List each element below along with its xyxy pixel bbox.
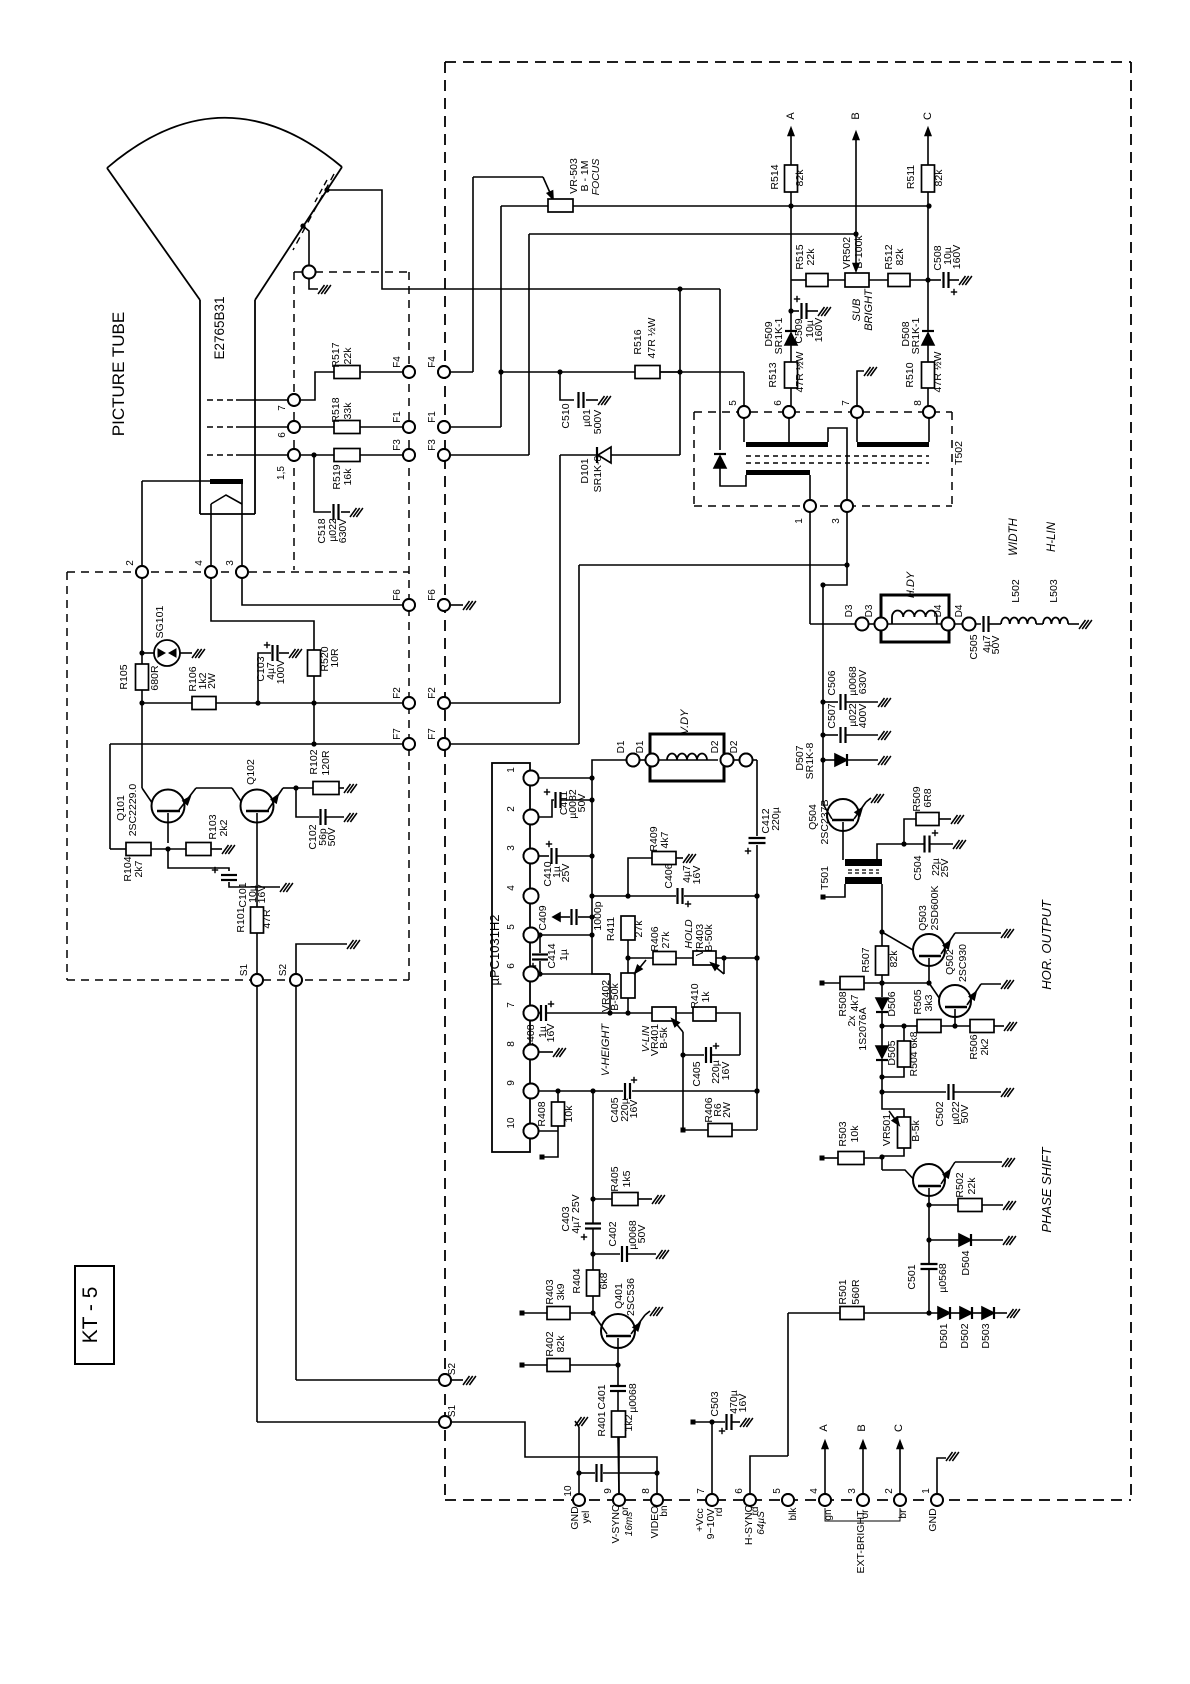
svg-text:22k: 22k <box>805 248 817 266</box>
svg-text:R513: R513 <box>767 362 779 387</box>
svg-text:1µ: 1µ <box>558 949 570 961</box>
svg-text:V.DY: V.DY <box>679 709 691 735</box>
svg-text:1: 1 <box>794 518 805 524</box>
svg-text:1: 1 <box>921 1488 932 1494</box>
svg-text:D4: D4 <box>954 604 965 617</box>
svg-text:H-LIN: H-LIN <box>1046 521 1058 552</box>
svg-text:C502: C502 <box>934 1101 946 1126</box>
svg-text:SG101: SG101 <box>154 606 166 639</box>
svg-text:16V: 16V <box>545 1024 557 1043</box>
svg-text:5: 5 <box>728 400 739 406</box>
svg-text:C: C <box>893 1424 905 1432</box>
svg-text:L502: L502 <box>1010 579 1022 603</box>
svg-text:1k: 1k <box>700 991 712 1003</box>
svg-text:16V: 16V <box>720 1062 732 1081</box>
svg-text:R405: R405 <box>609 1166 621 1191</box>
svg-text:B-5k: B-5k <box>658 1026 670 1048</box>
svg-text:C414: C414 <box>546 943 558 968</box>
svg-text:16V: 16V <box>256 885 268 904</box>
svg-text:F2: F2 <box>427 687 438 699</box>
svg-text:R518: R518 <box>330 397 342 422</box>
svg-text:S1: S1 <box>447 1404 458 1417</box>
svg-text:630V: 630V <box>337 519 349 544</box>
svg-text:2k2: 2k2 <box>979 1038 991 1055</box>
svg-text:rd: rd <box>714 1508 725 1517</box>
svg-text:1,5: 1,5 <box>276 466 287 480</box>
svg-text:500V: 500V <box>592 410 604 435</box>
svg-text:R502: R502 <box>954 1172 966 1197</box>
svg-text:2: 2 <box>506 806 517 812</box>
svg-text:C510: C510 <box>560 403 572 428</box>
svg-text:F3: F3 <box>392 439 403 451</box>
svg-text:2k2: 2k2 <box>218 819 230 836</box>
svg-text:5: 5 <box>506 924 517 930</box>
svg-text:47R ½W: 47R ½W <box>932 351 944 392</box>
svg-text:R501: R501 <box>837 1279 849 1304</box>
svg-text:R408: R408 <box>536 1101 548 1126</box>
svg-text:PICTURE TUBE: PICTURE TUBE <box>109 312 128 436</box>
svg-text:16k: 16k <box>342 468 354 486</box>
svg-text:D3: D3 <box>844 604 855 617</box>
svg-text:F7: F7 <box>392 728 403 740</box>
svg-text:E2765B31: E2765B31 <box>212 296 227 359</box>
svg-text:560R: 560R <box>850 1279 862 1305</box>
svg-text:4k7: 4k7 <box>849 994 861 1011</box>
svg-text:B-100k: B-100k <box>853 235 865 269</box>
svg-text:2SC2229.0: 2SC2229.0 <box>127 784 139 837</box>
svg-text:µ0568: µ0568 <box>937 1263 949 1293</box>
svg-text:400V: 400V <box>857 704 869 729</box>
svg-text:D2: D2 <box>729 740 740 753</box>
svg-text:F6: F6 <box>392 589 403 601</box>
svg-text:10: 10 <box>563 1485 574 1497</box>
svg-text:SR1K-8: SR1K-8 <box>592 455 604 492</box>
svg-text:2SC930: 2SC930 <box>957 944 969 982</box>
svg-text:or: or <box>860 1509 871 1519</box>
svg-text:blk: blk <box>788 1507 799 1521</box>
svg-text:27k: 27k <box>660 931 672 949</box>
svg-text:5: 5 <box>772 1488 783 1494</box>
svg-text:PHASE SHIFT: PHASE SHIFT <box>1039 1146 1054 1232</box>
svg-text:SR1K-1: SR1K-1 <box>910 317 922 354</box>
svg-text:EXT-BRIGHT: EXT-BRIGHT <box>855 1510 867 1574</box>
svg-text:R404: R404 <box>571 1268 583 1293</box>
svg-text:10k: 10k <box>563 1105 575 1123</box>
svg-text:V-HEIGHT: V-HEIGHT <box>600 1023 612 1076</box>
svg-text:D1: D1 <box>635 740 646 753</box>
svg-text:R511: R511 <box>905 165 917 189</box>
svg-text:3: 3 <box>847 1488 858 1494</box>
svg-text:R517: R517 <box>330 342 342 367</box>
svg-text:Q504: Q504 <box>807 804 819 830</box>
svg-text:F1: F1 <box>392 411 403 423</box>
svg-text:F2: F2 <box>392 687 403 699</box>
svg-text:160V: 160V <box>813 318 825 343</box>
svg-text:B-5k: B-5k <box>910 1119 922 1141</box>
svg-text:7: 7 <box>277 405 288 411</box>
svg-text:SR1K-1: SR1K-1 <box>773 317 785 354</box>
svg-text:BRIGHT: BRIGHT <box>863 288 875 331</box>
svg-text:D4: D4 <box>933 604 944 617</box>
svg-text:82k: 82k <box>794 169 806 187</box>
svg-text:D506: D506 <box>886 991 898 1016</box>
svg-text:D503: D503 <box>980 1323 992 1348</box>
svg-text:120R: 120R <box>320 750 332 776</box>
svg-text:33k: 33k <box>342 402 354 420</box>
svg-text:WIDTH: WIDTH <box>1008 517 1020 555</box>
svg-text:C505: C505 <box>968 634 980 659</box>
svg-text:br: br <box>898 1509 909 1519</box>
svg-text:16V: 16V <box>737 1394 749 1413</box>
svg-text:4: 4 <box>809 1488 820 1494</box>
svg-text:yel: yel <box>581 1511 592 1524</box>
svg-text:6k8: 6k8 <box>598 1272 610 1289</box>
svg-text:R516: R516 <box>632 329 644 354</box>
svg-text:F6: F6 <box>427 589 438 601</box>
svg-text:C504: C504 <box>912 855 924 880</box>
svg-text:R401: R401 <box>596 1411 608 1436</box>
svg-text:8: 8 <box>913 400 924 406</box>
svg-text:3: 3 <box>506 845 517 851</box>
svg-text:2: 2 <box>884 1488 895 1494</box>
svg-text:1: 1 <box>506 767 517 773</box>
svg-text:C507: C507 <box>826 703 838 728</box>
svg-text:47R: 47R <box>261 909 273 929</box>
svg-text:S2: S2 <box>278 963 289 976</box>
svg-text:7: 7 <box>841 400 852 406</box>
svg-text:µ0068: µ0068 <box>627 1383 639 1413</box>
svg-text:F1: F1 <box>427 411 438 423</box>
svg-text:10R: 10R <box>329 648 341 668</box>
svg-text:A: A <box>818 1424 830 1432</box>
svg-text:S2: S2 <box>447 1362 458 1375</box>
svg-text:82k: 82k <box>555 1335 567 1353</box>
svg-text:3: 3 <box>225 560 236 566</box>
svg-text:H.DY: H.DY <box>905 571 917 598</box>
svg-text:2SC536: 2SC536 <box>625 1278 637 1316</box>
svg-text:A: A <box>785 112 797 120</box>
svg-text:D501: D501 <box>938 1323 950 1348</box>
svg-text:R503: R503 <box>837 1121 849 1146</box>
svg-text:100V: 100V <box>275 660 287 685</box>
svg-text:8: 8 <box>641 1488 652 1494</box>
svg-text:D101: D101 <box>579 458 591 483</box>
svg-text:FOCUS: FOCUS <box>590 159 602 196</box>
svg-text:6: 6 <box>773 400 784 406</box>
svg-text:10k: 10k <box>849 1125 861 1143</box>
svg-text:Q401: Q401 <box>613 1283 625 1309</box>
svg-text:6: 6 <box>734 1488 745 1494</box>
svg-text:50V: 50V <box>959 1105 971 1124</box>
svg-text:B-50k: B-50k <box>703 924 715 952</box>
svg-text:6: 6 <box>277 432 288 438</box>
svg-text:VR502: VR502 <box>841 237 853 269</box>
svg-text:4: 4 <box>194 560 205 566</box>
svg-text:22k: 22k <box>342 347 354 365</box>
svg-text:or: or <box>620 1506 631 1516</box>
svg-text:10: 10 <box>506 1117 517 1129</box>
svg-text:C501: C501 <box>906 1264 918 1289</box>
svg-text:160V: 160V <box>951 245 963 270</box>
svg-text:6: 6 <box>506 963 517 969</box>
svg-text:F7: F7 <box>427 728 438 740</box>
svg-text:22k: 22k <box>966 1177 978 1195</box>
svg-text:1k5: 1k5 <box>621 1170 633 1187</box>
svg-text:F3: F3 <box>427 439 438 451</box>
svg-text:27k: 27k <box>633 920 645 938</box>
svg-text:47R ½W: 47R ½W <box>794 351 806 392</box>
svg-text:R514: R514 <box>769 164 781 189</box>
svg-text:R508: R508 <box>837 991 849 1016</box>
svg-text:2SD600K: 2SD600K <box>929 886 941 931</box>
svg-text:T501: T501 <box>819 866 831 890</box>
svg-text:D2: D2 <box>710 740 721 753</box>
svg-text:GND: GND <box>927 1508 939 1532</box>
svg-text:Q503: Q503 <box>917 905 929 931</box>
svg-text:C405: C405 <box>691 1061 703 1086</box>
svg-text:F4: F4 <box>392 356 403 368</box>
svg-text:SUB: SUB <box>851 299 863 322</box>
svg-text:gn: gn <box>823 1509 834 1520</box>
svg-text:GND: GND <box>569 1506 581 1530</box>
svg-text:µPC1031H2: µPC1031H2 <box>487 914 502 985</box>
svg-text:R102: R102 <box>308 749 320 774</box>
svg-text:SR1K-8: SR1K-8 <box>804 742 816 779</box>
svg-text:D505: D505 <box>886 1040 898 1065</box>
svg-text:B: B <box>850 112 862 119</box>
svg-text:KT - 5: KT - 5 <box>79 1287 102 1344</box>
svg-text:C503: C503 <box>709 1391 721 1416</box>
svg-text:D502: D502 <box>959 1323 971 1348</box>
svg-text:2W: 2W <box>206 673 218 689</box>
svg-text:R510: R510 <box>904 362 916 387</box>
svg-text:F4: F4 <box>427 356 438 368</box>
svg-text:2SC237B: 2SC237B <box>819 800 831 845</box>
svg-text:25V: 25V <box>560 864 572 883</box>
svg-text:HOR. OUTPUT: HOR. OUTPUT <box>1039 899 1054 990</box>
svg-text:rd: rd <box>750 1507 761 1516</box>
svg-text:2k7: 2k7 <box>133 860 145 877</box>
svg-text:9: 9 <box>603 1488 614 1494</box>
svg-text:50V: 50V <box>326 828 338 847</box>
svg-text:7: 7 <box>506 1002 517 1008</box>
svg-text:C406: C406 <box>663 863 675 888</box>
svg-text:3k3: 3k3 <box>923 994 935 1011</box>
svg-text:50V: 50V <box>990 636 1002 655</box>
svg-text:680R: 680R <box>149 665 161 691</box>
svg-text:4k7: 4k7 <box>659 831 671 848</box>
svg-text:4µ7 25V: 4µ7 25V <box>570 1194 582 1233</box>
svg-text:3k9: 3k9 <box>555 1283 567 1300</box>
svg-text:D504: D504 <box>960 1250 972 1275</box>
svg-text:L503: L503 <box>1048 579 1060 603</box>
svg-text:47R ½W: 47R ½W <box>646 317 658 358</box>
svg-text:2W: 2W <box>721 1102 733 1118</box>
svg-text:7: 7 <box>696 1488 707 1494</box>
svg-text:Q502: Q502 <box>944 949 956 975</box>
svg-text:1k2: 1k2 <box>623 1414 635 1431</box>
svg-text:C506: C506 <box>826 670 838 695</box>
svg-text:C: C <box>922 112 934 120</box>
svg-text:VR501: VR501 <box>881 1114 893 1146</box>
svg-text:B: B <box>856 1424 868 1431</box>
svg-text:220µ: 220µ <box>770 807 782 831</box>
svg-text:C409: C409 <box>537 905 549 930</box>
svg-text:9: 9 <box>506 1080 517 1086</box>
svg-text:R507: R507 <box>860 947 872 972</box>
svg-text:1S2076A: 1S2076A <box>857 1007 869 1050</box>
svg-text:4: 4 <box>506 885 517 891</box>
svg-text:C402: C402 <box>607 1221 619 1246</box>
svg-text:B-50k: B-50k <box>609 983 621 1011</box>
svg-text:8: 8 <box>506 1041 517 1047</box>
svg-text:C401: C401 <box>596 1384 608 1409</box>
svg-text:82k: 82k <box>894 248 906 266</box>
svg-text:R411: R411 <box>605 917 617 941</box>
svg-text:50V: 50V <box>576 794 588 813</box>
svg-text:R105: R105 <box>118 664 130 689</box>
svg-text:T502: T502 <box>953 441 965 465</box>
svg-text:82k: 82k <box>888 950 900 968</box>
svg-text:16V: 16V <box>691 866 703 885</box>
svg-text:6R8: 6R8 <box>922 788 934 807</box>
svg-text:R504 6k8: R504 6k8 <box>908 1031 920 1076</box>
svg-text:R101: R101 <box>235 907 247 932</box>
svg-text:3: 3 <box>831 518 842 524</box>
svg-text:Q101: Q101 <box>115 795 127 821</box>
svg-text:bn: bn <box>659 1505 670 1516</box>
svg-text:82k: 82k <box>933 169 945 187</box>
svg-text:50V: 50V <box>636 1225 648 1244</box>
svg-text:D3: D3 <box>864 604 875 617</box>
svg-text:D1: D1 <box>616 740 627 753</box>
svg-text:1000p: 1000p <box>592 901 604 930</box>
svg-text:630V: 630V <box>857 670 869 695</box>
svg-text:Q102: Q102 <box>245 759 257 785</box>
svg-text:25V: 25V <box>939 859 951 878</box>
svg-text:2: 2 <box>125 560 136 566</box>
svg-text:16V: 16V <box>628 1100 640 1119</box>
svg-text:S1: S1 <box>239 963 250 976</box>
